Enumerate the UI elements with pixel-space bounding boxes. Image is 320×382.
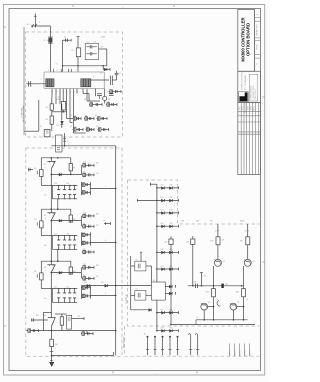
diode row 3	[157, 212, 179, 214]
svg-text:D5: D5	[87, 126, 89, 128]
svg-text:10K: 10K	[221, 240, 224, 242]
stage 1 inter-stage wire	[50, 169, 52, 210]
column cap C26	[170, 236, 172, 324]
svg-text:C20: C20	[83, 264, 86, 266]
svg-text:C12: C12	[83, 162, 86, 164]
svg-text:D14: D14	[161, 210, 164, 212]
svg-text:GND 0V: GND 0V	[244, 350, 246, 356]
op-amp U1	[50, 158, 52, 162]
diode row 2	[157, 199, 179, 201]
svg-text:Q3: Q3	[208, 302, 210, 304]
svg-text:D8: D8	[83, 275, 85, 277]
svg-text:R6: R6	[34, 271, 36, 273]
svg-text:R14: R14	[55, 344, 58, 346]
svg-text:D9: D9	[83, 249, 85, 251]
inter-stage wire 3 to 4	[50, 272, 52, 312]
svg-text:TP1: TP1	[225, 284, 228, 286]
lone pair stage2	[82, 251, 94, 253]
zone tick marks	[4, 26, 7, 28]
resistor R17	[212, 289, 216, 297]
svg-text:C1: C1	[64, 37, 66, 39]
svg-text:D3: D3	[57, 125, 59, 127]
svg-text:C2: C2	[87, 42, 89, 44]
svg-text:10n: 10n	[44, 298, 47, 300]
svg-text:K3: K3	[136, 289, 138, 291]
stage4 output bus	[27, 330, 116, 332]
svg-text:T1: T1	[56, 64, 58, 66]
row pair mid A	[73, 118, 82, 120]
stage4 loop	[42, 312, 44, 330]
resistor R10 feedback	[70, 261, 72, 267]
svg-text:R13: R13	[170, 197, 173, 199]
stage 1 output to bus	[90, 187, 115, 189]
svg-text:SHEET 1 OF 2: SHEET 1 OF 2	[257, 24, 259, 35]
svg-text:Q4: Q4	[237, 302, 239, 304]
row pair top A	[89, 104, 102, 106]
ground bus wire	[52, 355, 114, 357]
svg-text:CHECKED D.SMITH: CHECKED D.SMITH	[253, 85, 255, 99]
left rail wire	[23, 27, 25, 135]
svg-text:C13: C13	[96, 173, 99, 175]
left exit wire	[38, 100, 40, 131]
column Q1 feed	[217, 224, 219, 259]
connector J1 hooks	[32, 24, 37, 28]
dashed box audio board	[26, 148, 122, 356]
ground arrow	[49, 362, 53, 366]
svg-text:R12: R12	[170, 185, 173, 187]
sheet inner border	[9, 9, 261, 371]
mid rail wire	[188, 285, 244, 287]
svg-text:R5: R5	[84, 99, 86, 101]
stage 2 inter-stage wire	[50, 220, 52, 261]
svg-text:10n: 10n	[44, 245, 47, 247]
relay stub a	[165, 285, 169, 287]
svg-text:R14: R14	[170, 210, 173, 212]
svg-text:K2: K2	[136, 259, 138, 261]
test point square	[221, 284, 223, 288]
svg-text:GND 0V: GND 0V	[234, 350, 236, 356]
svg-text:D15: D15	[161, 223, 164, 225]
stub above mid rail	[200, 273, 202, 286]
option bus wire	[156, 184, 158, 282]
svg-text:+13V8: +13V8	[244, 231, 249, 233]
stage 2 feedback wire	[51, 220, 81, 222]
right pair row 2a	[82, 215, 94, 217]
svg-text:R18: R18	[236, 292, 239, 294]
svg-text:C27: C27	[186, 242, 189, 244]
title side strip cells	[254, 9, 256, 71]
svg-text:C10: C10	[74, 126, 77, 128]
svg-text:3: 3	[45, 218, 46, 220]
diode D1	[49, 26, 51, 72]
relay box K1	[152, 282, 166, 300]
emitter wire Q1	[213, 266, 215, 320]
left column resistor R2	[51, 98, 53, 132]
svg-text:C6: C6	[107, 91, 109, 93]
resistor R9 feedback	[70, 209, 72, 215]
resistor R5	[40, 221, 44, 228]
svg-text:D19: D19	[161, 328, 164, 330]
svg-text:C22: C22	[66, 286, 69, 288]
svg-text:U4: U4	[44, 315, 46, 317]
company logo mark	[239, 92, 247, 101]
svg-text:GND 0V: GND 0V	[239, 350, 241, 356]
svg-text:10n: 10n	[44, 195, 47, 197]
row pair mid B	[84, 118, 94, 120]
right pair row 3a	[82, 266, 94, 268]
svg-text:D12: D12	[161, 185, 164, 187]
svg-text:SW2: SW2	[196, 221, 199, 223]
svg-text:E L L: E L L	[27, 24, 31, 26]
wire J1 horizontal	[31, 25, 50, 27]
right pair row 1b	[82, 174, 94, 176]
inter-board wire	[64, 133, 66, 146]
stage4 input stub	[31, 319, 48, 321]
svg-text:R24: R24	[96, 265, 99, 267]
resistor R8 feedback	[70, 158, 72, 164]
connector J2 pins	[147, 336, 149, 338]
series diodes to option board	[82, 285, 152, 287]
wire filter to bus	[99, 48, 107, 50]
svg-text:R23: R23	[96, 214, 99, 216]
stage4 left pair	[27, 330, 39, 332]
svg-text:C23: C23	[77, 316, 80, 318]
svg-text:C12: C12	[86, 131, 89, 133]
svg-text:TP2: TP2	[203, 276, 206, 278]
row pair low B	[86, 129, 95, 131]
svg-text:GND 0V: GND 0V	[229, 350, 231, 356]
filter box with C2 C3	[85, 43, 98, 59]
svg-text:C9: C9	[74, 115, 76, 117]
capacitor bank stage 2	[52, 235, 77, 237]
svg-text:C7: C7	[90, 101, 92, 103]
transistor Q1	[214, 259, 221, 266]
svg-text:C8: C8	[107, 101, 109, 103]
svg-text:R6: R6	[95, 115, 97, 117]
net label stubs bottom right	[228, 344, 230, 357]
svg-text:C14: C14	[66, 183, 69, 185]
svg-text:REV: REV	[239, 107, 241, 110]
stage 1 left rail	[40, 158, 42, 186]
stage4 pair	[81, 333, 93, 335]
transformer T1 body	[44, 72, 104, 89]
svg-text:D11: D11	[101, 282, 104, 284]
svg-text:D2: D2	[100, 73, 102, 75]
terminal stage1 left	[28, 169, 33, 171]
right pair row 2b	[82, 225, 94, 227]
svg-text:Q1: Q1	[223, 261, 225, 263]
svg-text:+13V8: +13V8	[215, 231, 220, 233]
svg-text:C17: C17	[54, 233, 57, 235]
title block frame	[238, 9, 255, 71]
svg-text:+13V8: +13V8	[100, 37, 105, 39]
emitter wire Q2	[243, 266, 245, 320]
svg-text:OPTION BD: OPTION BD	[124, 336, 126, 348]
sheet outer border	[4, 5, 265, 376]
test point circle	[103, 96, 107, 100]
capacitor bank stage 3	[52, 288, 77, 290]
svg-text:D17: D17	[161, 266, 164, 268]
capacitor C4 stub	[116, 75, 118, 80]
svg-text:DESCRIPTION: DESCRIPTION	[245, 103, 247, 113]
logo block frame	[238, 71, 261, 102]
svg-text:R2: R2	[46, 107, 48, 109]
mid terminal near bus	[104, 223, 111, 225]
bottom hook diode	[131, 309, 149, 311]
wire J1 drop	[34, 14, 36, 27]
svg-text:0V: 0V	[197, 317, 199, 319]
stage4 right stub	[72, 318, 84, 320]
svg-text:C13: C13	[54, 183, 57, 185]
left stub row 2	[137, 199, 157, 201]
wire T1 secondary out	[91, 79, 109, 81]
svg-text:R1: R1	[72, 50, 74, 52]
capacitor C28	[195, 284, 197, 288]
svg-text:R3: R3	[46, 119, 48, 121]
stage 2 bank link wire	[57, 249, 59, 261]
svg-text:R17: R17	[206, 292, 209, 294]
sub box A	[130, 256, 132, 310]
svg-text:2: 2	[67, 141, 68, 143]
bus wire main	[115, 146, 117, 356]
stage 3 left rail	[40, 261, 42, 288]
dashed connector region bottom	[125, 355, 260, 357]
svg-text:1K: 1K	[246, 299, 248, 301]
svg-text:C26: C26	[164, 242, 167, 244]
svg-text:D6: D6	[83, 172, 85, 174]
resistor R1	[77, 37, 79, 73]
sub box A top wire	[140, 252, 142, 261]
right frame pair stage 2	[80, 232, 82, 246]
row pair top B	[106, 104, 117, 106]
diode row 4	[157, 225, 179, 227]
hook symbol	[217, 301, 221, 307]
svg-text:D10: D10	[84, 282, 87, 284]
svg-text:2: 2	[39, 22, 40, 24]
svg-text:Q2: Q2	[253, 261, 255, 263]
svg-text:D5: D5	[70, 126, 72, 128]
svg-text:1K: 1K	[216, 299, 218, 301]
capacitor C5	[97, 93, 102, 95]
capacitor C6	[109, 93, 114, 95]
stage 2 output to bus	[90, 241, 115, 243]
wire nest	[66, 112, 68, 119]
left column resistor R3	[50, 116, 53, 124]
row pair low C	[98, 129, 109, 131]
dashed box option region	[128, 180, 260, 326]
stage 2 left rail	[40, 209, 42, 235]
right frame pair stage 1	[80, 182, 82, 195]
row pair mid C	[97, 118, 108, 120]
svg-text:R8: R8	[73, 167, 75, 169]
resistor R18	[242, 289, 246, 297]
revision table	[238, 103, 261, 175]
svg-text:D16: D16	[161, 249, 164, 251]
op-amp U2	[50, 209, 52, 213]
transformer top pin stubs	[53, 69, 55, 72]
svg-text:C21: C21	[96, 276, 99, 278]
resistor R13	[61, 314, 63, 331]
resistor R19	[61, 102, 65, 111]
svg-text:J2: J2	[144, 334, 146, 336]
capacitor bank stage 1	[52, 184, 77, 186]
svg-text:R22: R22	[96, 163, 99, 165]
svg-text:C4: C4	[119, 73, 121, 75]
column Q2 feed	[247, 224, 249, 259]
capacitor C1 stub	[62, 40, 64, 72]
svg-text:GND 0V: GND 0V	[249, 350, 251, 356]
svg-text:U3: U3	[44, 267, 46, 269]
connector hook pins	[188, 334, 191, 335]
op-amp U3	[50, 261, 52, 265]
svg-text:C17: C17	[96, 225, 99, 227]
svg-text:C11: C11	[74, 131, 77, 133]
svg-text:D13: D13	[161, 197, 164, 199]
svg-text:D18: D18	[161, 309, 164, 311]
row pair low A	[73, 129, 84, 131]
bottom bus 2	[171, 324, 255, 326]
svg-text:C21: C21	[54, 286, 57, 288]
svg-text:C3: C3	[94, 42, 96, 44]
svg-text:OPTION BOARD: OPTION BOARD	[246, 23, 251, 56]
wire left terminal to T1	[26, 83, 46, 85]
diode row 1	[157, 187, 179, 189]
svg-text:SW1: SW1	[181, 221, 184, 223]
stage 3 input rail	[41, 260, 71, 262]
svg-text:D1: D1	[44, 40, 46, 42]
right pair row 1a	[82, 164, 94, 166]
stage4 output down	[51, 326, 53, 362]
svg-text:R19: R19	[170, 328, 173, 330]
stage 1 input rail	[41, 157, 71, 159]
stage 1 feedback wire	[51, 173, 81, 175]
wire Q4 down	[232, 310, 234, 320]
svg-text:R15: R15	[170, 223, 173, 225]
signal wire to bus corner	[51, 145, 115, 147]
sub box B	[135, 290, 146, 300]
logo block inner panel	[249, 74, 257, 101]
stage 3 feedback wire	[51, 272, 81, 274]
diode D2 stub	[102, 66, 104, 70]
svg-text:R4: R4	[34, 168, 36, 170]
row wires mid	[52, 111, 67, 113]
row pair right C4b	[109, 91, 121, 93]
svg-text:R21: R21	[240, 241, 243, 243]
svg-text:D4: D4	[85, 115, 87, 117]
bottom bus 1	[196, 319, 248, 321]
svg-text:4k7: 4k7	[101, 47, 104, 49]
svg-text:C16: C16	[83, 213, 86, 215]
op-amp U4	[51, 312, 53, 317]
stage 2 input rail	[41, 208, 71, 210]
right frame pair stage 3	[80, 285, 82, 299]
transistor Q4	[230, 303, 237, 310]
transformer pin wires	[51, 89, 53, 98]
component box bottom left	[44, 129, 50, 136]
svg-text:PTT: PTT	[210, 221, 213, 223]
stage 1 bank link wire	[57, 199, 59, 209]
capacitor C22 box	[67, 315, 72, 329]
svg-text:REV A: REV A	[256, 44, 259, 50]
transistor Q3	[201, 303, 208, 310]
transformer T1 secondary coil	[81, 79, 91, 87]
svg-text:C18: C18	[66, 233, 69, 235]
transformer T1 primary coil	[46, 79, 54, 87]
svg-text:CONTROL: CONTROL	[126, 293, 128, 304]
svg-text:MUTE: MUTE	[240, 221, 244, 223]
resistor R4	[40, 170, 44, 177]
diode D3	[61, 104, 63, 121]
dashed box tuning head	[26, 32, 123, 137]
resistor R14	[50, 339, 54, 346]
diode row 7	[157, 312, 179, 314]
svg-text:U2: U2	[44, 215, 46, 217]
svg-text:C24: C24	[82, 330, 85, 332]
svg-text:R19: R19	[57, 99, 60, 101]
svg-text:TO RF UNIT: TO RF UNIT	[21, 107, 23, 118]
column cap C27	[192, 236, 194, 286]
resistor R6	[40, 273, 44, 280]
right pair row 3b	[82, 277, 94, 279]
svg-text:3: 3	[45, 270, 46, 272]
svg-text:x4: x4	[103, 220, 105, 222]
svg-text:ECN: ECN	[242, 107, 244, 110]
svg-text:R12: R12	[36, 315, 39, 317]
stage4 input rail	[43, 311, 51, 313]
svg-text:C28: C28	[194, 282, 197, 284]
svg-text:R20: R20	[210, 241, 213, 243]
diode row 8	[157, 330, 179, 332]
svg-text:OLYMPUS ELECTRONICS: OLYMPUS ELECTRONICS	[242, 71, 244, 90]
svg-text:R5: R5	[34, 219, 36, 221]
svg-text:3: 3	[45, 167, 46, 169]
svg-text:D7: D7	[83, 223, 85, 225]
svg-text:K1: K1	[153, 280, 155, 282]
diode row 6	[157, 268, 179, 270]
diode row 5	[157, 251, 179, 253]
svg-text:U1: U1	[44, 164, 46, 166]
stage 3 output to bus	[90, 294, 115, 296]
option bus top stub	[150, 183, 157, 185]
wire Q3 down	[203, 310, 205, 320]
connector block between boards	[56, 135, 63, 152]
transistor Q2	[244, 259, 251, 266]
relay stub b	[165, 292, 169, 294]
